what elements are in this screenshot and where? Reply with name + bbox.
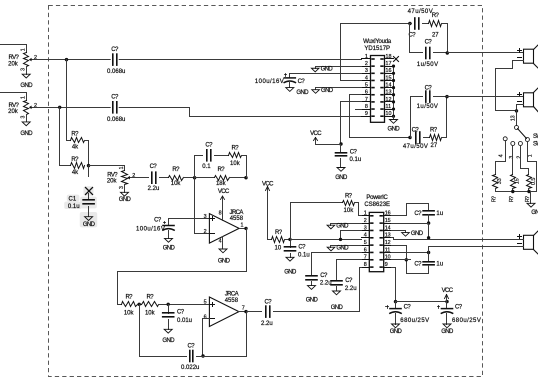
svg-text:6: 6 xyxy=(364,247,367,253)
svg-text:GND: GND xyxy=(390,329,403,335)
svg-text:CS8623E: CS8623E xyxy=(364,202,390,208)
svg-text:8: 8 xyxy=(365,104,368,110)
svg-text:0.01u: 0.01u xyxy=(177,318,192,324)
svg-text:4k: 4k xyxy=(72,170,79,176)
svg-text:PowerIC: PowerIC xyxy=(366,195,388,201)
svg-text:4k: 4k xyxy=(72,144,79,150)
svg-text:WuxiYouda: WuxiYouda xyxy=(363,39,392,45)
svg-text:0.5: 0.5 xyxy=(531,178,537,186)
svg-text:2: 2 xyxy=(516,156,522,159)
svg-text:JRCA: JRCA xyxy=(225,292,239,298)
svg-text:4: 4 xyxy=(219,239,222,245)
svg-text:15: 15 xyxy=(385,218,391,224)
svg-text:3: 3 xyxy=(365,68,368,74)
svg-text:20k: 20k xyxy=(8,61,19,67)
svg-text:2: 2 xyxy=(365,61,368,67)
svg-text:17: 17 xyxy=(386,61,392,67)
svg-text:2.2u: 2.2u xyxy=(148,186,160,192)
svg-text:1u: 1u xyxy=(436,262,443,268)
svg-text:GND: GND xyxy=(20,131,33,137)
svg-text:GND: GND xyxy=(306,297,319,303)
svg-text:7: 7 xyxy=(242,306,245,312)
svg-text:5: 5 xyxy=(204,300,207,306)
svg-text:2: 2 xyxy=(204,229,207,235)
svg-text:1u: 1u xyxy=(436,211,443,217)
svg-text:2: 2 xyxy=(364,218,367,224)
svg-text:13: 13 xyxy=(385,233,391,239)
svg-text:10k: 10k xyxy=(344,208,355,214)
svg-text:SW_S: SW_S xyxy=(533,142,538,148)
svg-text:2.2u: 2.2u xyxy=(345,286,357,292)
svg-text:4558: 4558 xyxy=(225,298,239,304)
svg-text:0.1: 0.1 xyxy=(202,164,211,170)
svg-text:VCC: VCC xyxy=(310,131,322,137)
svg-text:3: 3 xyxy=(21,116,27,119)
svg-text:15: 15 xyxy=(515,178,521,184)
svg-text:4: 4 xyxy=(365,75,368,81)
svg-text:11: 11 xyxy=(385,247,391,253)
svg-text:GND: GND xyxy=(284,270,297,276)
svg-text:18k: 18k xyxy=(216,181,227,187)
svg-text:VCC: VCC xyxy=(442,288,454,294)
svg-text:47u/50V: 47u/50V xyxy=(403,144,429,150)
svg-text:18: 18 xyxy=(386,54,392,60)
svg-text:8: 8 xyxy=(219,211,222,217)
svg-text:10: 10 xyxy=(386,111,392,117)
svg-text:10k: 10k xyxy=(145,310,156,316)
svg-text:GND: GND xyxy=(335,175,348,181)
svg-text:GND: GND xyxy=(218,259,231,265)
svg-text:16: 16 xyxy=(385,211,391,217)
svg-text:VCC: VCC xyxy=(218,189,230,195)
svg-text:1: 1 xyxy=(365,54,368,60)
svg-text:GND: GND xyxy=(531,210,538,216)
svg-text:16: 16 xyxy=(386,68,392,74)
svg-text:SW?: SW? xyxy=(533,134,538,140)
svg-text:1: 1 xyxy=(364,211,367,217)
svg-text:33: 33 xyxy=(497,178,503,184)
svg-text:3: 3 xyxy=(21,68,27,71)
svg-text:RV?: RV? xyxy=(107,172,118,178)
svg-text:0.068u: 0.068u xyxy=(107,69,125,75)
svg-text:7: 7 xyxy=(364,255,367,261)
svg-text:10k: 10k xyxy=(124,310,135,316)
svg-text:1: 1 xyxy=(21,96,27,99)
svg-text:GND: GND xyxy=(83,222,96,228)
svg-text:2: 2 xyxy=(132,173,135,179)
svg-text:1: 1 xyxy=(21,48,27,51)
svg-text:3: 3 xyxy=(204,214,207,220)
svg-text:680u/25V: 680u/25V xyxy=(400,318,429,324)
svg-text:JRCA: JRCA xyxy=(230,210,244,216)
svg-text:10: 10 xyxy=(385,255,391,261)
svg-text:10: 10 xyxy=(275,246,282,252)
svg-text:GND: GND xyxy=(441,329,454,335)
svg-text:2.2u: 2.2u xyxy=(261,321,273,327)
svg-text:GND: GND xyxy=(321,88,334,94)
svg-text:GND: GND xyxy=(119,197,132,203)
svg-text:20k: 20k xyxy=(8,109,19,115)
svg-text:14: 14 xyxy=(385,225,391,231)
svg-text:10k: 10k xyxy=(171,181,182,187)
svg-text:1u/50V: 1u/50V xyxy=(417,104,439,110)
svg-text:6: 6 xyxy=(365,90,368,96)
svg-text:RV?: RV? xyxy=(9,55,20,61)
svg-text:4: 4 xyxy=(498,154,504,157)
svg-text:GND: GND xyxy=(321,67,334,73)
svg-text:GND: GND xyxy=(336,245,349,251)
svg-text:12: 12 xyxy=(385,240,391,246)
svg-text:5: 5 xyxy=(364,240,367,246)
svg-text:15: 15 xyxy=(386,75,392,81)
svg-text:1: 1 xyxy=(241,223,244,229)
svg-text:R?: R? xyxy=(491,196,497,202)
svg-text:VCC: VCC xyxy=(262,181,274,187)
svg-text:0.1u: 0.1u xyxy=(298,252,310,258)
svg-text:3: 3 xyxy=(364,225,367,231)
svg-text:11: 11 xyxy=(386,104,392,110)
svg-text:1: 1 xyxy=(119,166,125,169)
svg-text:9: 9 xyxy=(365,111,368,117)
svg-text:10k: 10k xyxy=(230,161,241,167)
svg-text:GND: GND xyxy=(388,127,401,133)
svg-text:27: 27 xyxy=(431,143,438,149)
svg-text:R?: R? xyxy=(509,196,515,202)
svg-text:GND: GND xyxy=(296,90,309,96)
svg-text:20k: 20k xyxy=(107,178,118,184)
svg-text:GND: GND xyxy=(411,231,424,237)
svg-text:14: 14 xyxy=(386,83,392,89)
svg-text:GND: GND xyxy=(20,83,33,89)
svg-text:2: 2 xyxy=(34,55,37,61)
svg-text:GND: GND xyxy=(163,245,176,251)
svg-text:4558: 4558 xyxy=(230,216,244,222)
svg-text:4: 4 xyxy=(364,233,367,239)
svg-text:9: 9 xyxy=(385,262,388,268)
svg-text:0.1u: 0.1u xyxy=(350,157,362,163)
svg-text:GND: GND xyxy=(336,223,349,229)
svg-text:5: 5 xyxy=(365,83,368,89)
svg-text:0.1u: 0.1u xyxy=(68,204,80,210)
svg-text:27: 27 xyxy=(432,32,439,38)
svg-text:13: 13 xyxy=(510,115,516,121)
svg-text:C1: C1 xyxy=(69,196,77,202)
svg-text:1: 1 xyxy=(527,154,533,157)
svg-text:GND: GND xyxy=(162,338,175,344)
svg-text:680u/25V: 680u/25V xyxy=(452,318,481,324)
svg-text:3: 3 xyxy=(509,156,515,159)
svg-text:100u/16V: 100u/16V xyxy=(255,79,284,85)
svg-text:GND: GND xyxy=(331,305,344,311)
svg-text:12: 12 xyxy=(386,97,392,103)
svg-text:YD1517P: YD1517P xyxy=(364,46,390,52)
svg-text:100u/16V: 100u/16V xyxy=(136,226,165,232)
svg-text:2.2u: 2.2u xyxy=(320,281,332,287)
svg-text:1u/50V: 1u/50V xyxy=(417,62,439,68)
svg-text:6: 6 xyxy=(204,314,207,320)
svg-text:8: 8 xyxy=(364,262,367,268)
svg-text:13: 13 xyxy=(386,90,392,96)
svg-text:RV?: RV? xyxy=(9,103,20,109)
svg-text:0.068u: 0.068u xyxy=(107,117,125,123)
svg-text:47u/50V: 47u/50V xyxy=(408,9,434,15)
svg-text:7: 7 xyxy=(365,97,368,103)
svg-text:0.022u: 0.022u xyxy=(181,365,199,371)
